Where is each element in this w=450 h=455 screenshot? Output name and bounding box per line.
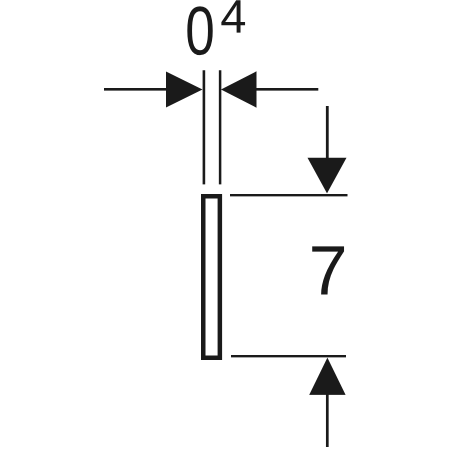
wire: extension line from plate left face <box>203 70 206 184</box>
wire: lower extension line of dimension 7 <box>231 355 346 357</box>
wire: left dimension line of 0.4 <box>104 88 169 91</box>
right arrowhead pointing left at plate right face <box>221 71 257 107</box>
wire: extension line from plate right face <box>219 70 222 184</box>
dimension label 0.4 (written 0 with superscript 4) <box>185 0 215 70</box>
wire: upper shaft of dimension 7 <box>326 106 329 162</box>
svg-text:0: 0 <box>185 0 215 70</box>
wire: right dimension line of 0.4 <box>255 88 318 91</box>
down arrowhead at top of dimension 7 <box>308 158 347 194</box>
wire: lower shaft of dimension 7 <box>326 393 329 447</box>
plate profile (thin vertical rectangle) <box>203 196 220 358</box>
wire: upper extension line of dimension 7 <box>230 194 348 196</box>
svg-text:7: 7 <box>309 231 348 309</box>
superscript 4 of label 0.4 <box>221 0 245 32</box>
left arrowhead pointing right at plate left face <box>166 72 203 108</box>
up arrowhead at bottom of dimension 7 <box>309 358 345 395</box>
